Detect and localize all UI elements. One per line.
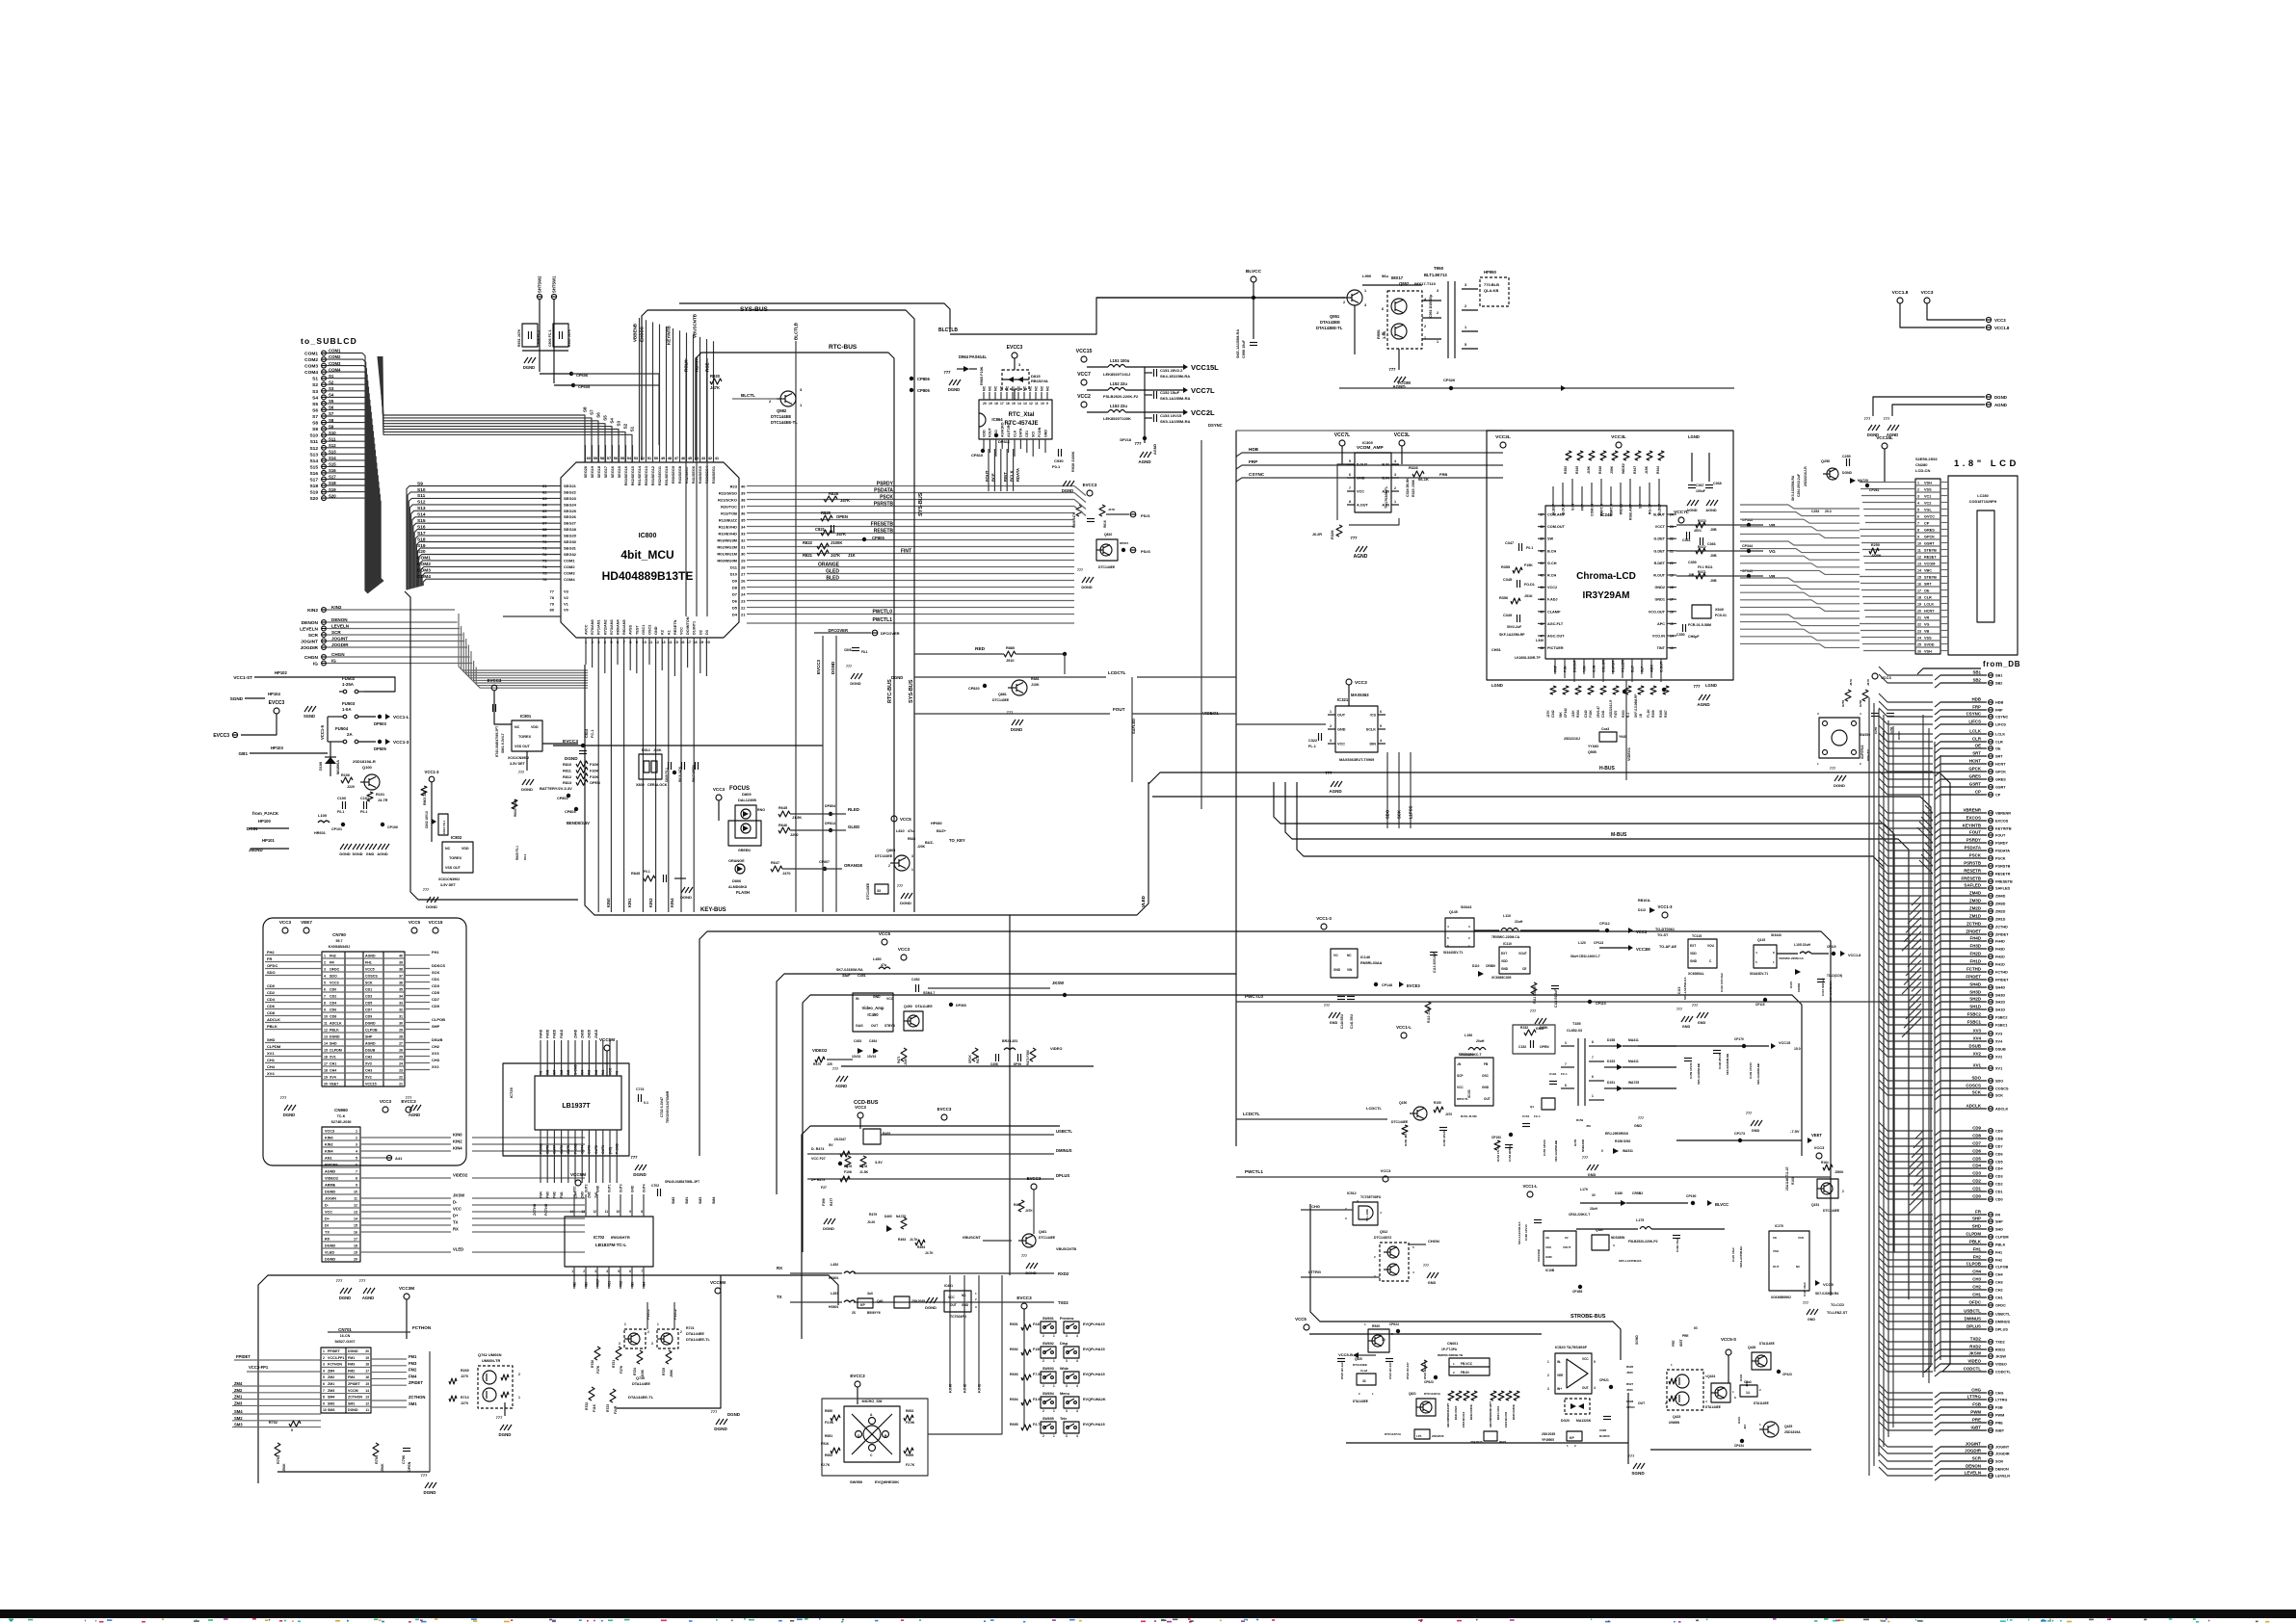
- svg-text:V3: V3: [564, 589, 569, 594]
- svg-text:63: 63: [542, 496, 547, 501]
- svg-text:GND: GND: [1428, 1281, 1437, 1285]
- power VCC7L VCC3L above VCOM_AMP: [1339, 440, 1345, 446]
- svg-text:C626: C626: [1599, 1428, 1607, 1432]
- svg-text:NC: NC: [1005, 385, 1009, 391]
- svg-text:IG: IG: [313, 662, 318, 668]
- svg-text:9: 9: [323, 1401, 325, 1405]
- svg-text:C706: C706: [402, 1455, 406, 1464]
- svg-text:ZM1D: ZM1D: [1995, 918, 2006, 922]
- svg-text:PSRSTB: PSRSTB: [1964, 861, 1981, 866]
- svg-text:FR: FR: [1975, 1210, 1982, 1215]
- svg-text:FM2: FM2: [553, 1191, 557, 1198]
- svg-text:C808: C808: [844, 648, 852, 652]
- svg-text:2SA1148-T11-1E: 2SA1148-T11-1E: [1785, 1167, 1789, 1191]
- svg-text:2: 2: [324, 960, 326, 964]
- svg-text:16-CN: 16-CN: [340, 1334, 351, 1338]
- buzzer driver bits: [875, 884, 888, 894]
- svg-text:R72/AN2: R72/AN2: [603, 619, 607, 635]
- svg-text:R03/WU3M: R03/WU3M: [717, 537, 737, 542]
- power EVCC3 node PS: [1087, 490, 1093, 496]
- svg-text:CHGN: CHGN: [1428, 1239, 1439, 1243]
- svg-text:PBLK: PBLK: [1995, 1243, 2006, 1247]
- IC246 bottom pins: [1554, 659, 1556, 674]
- svg-text:R725: R725: [662, 1368, 666, 1375]
- svg-text:BLCTLB: BLCTLB: [938, 327, 958, 333]
- svg-text:R845: R845: [631, 872, 640, 876]
- svg-text:34: 34: [741, 524, 746, 529]
- svg-text:LCDCTL: LCDCTL: [1243, 1112, 1260, 1116]
- power EVCC3 above matrix: [1021, 1303, 1027, 1309]
- svg-text:VCC5M: VCC5M: [570, 1172, 586, 1177]
- svg-text:DPLUS: DPLUS: [1966, 1324, 1981, 1329]
- svg-text:777: 777: [1389, 367, 1397, 372]
- svg-text:VCC15: VCC15: [429, 920, 443, 925]
- svg-text:HCNT: HCNT: [1924, 609, 1935, 613]
- svg-text:CD7: CD7: [1972, 1141, 1981, 1146]
- svg-text:7: 7: [641, 1270, 643, 1273]
- svg-text:47: 47: [1540, 635, 1544, 639]
- svg-text:SCR: SCR: [1995, 1460, 2003, 1464]
- power nodes VCC1.8 VCC3 top right: [1897, 298, 1903, 303]
- svg-text:R-1: R-1: [1626, 713, 1630, 718]
- svg-text:R160: R160: [1791, 1177, 1795, 1185]
- svg-text:S11: S11: [310, 439, 319, 445]
- svg-text:IN3: IN3: [588, 1070, 592, 1075]
- svg-text:VR: VR: [1924, 615, 1930, 619]
- svg-text:EVQPLHA15: EVQPLHA15: [1083, 1373, 1105, 1376]
- svg-text:IC800: IC800: [639, 533, 657, 539]
- transistor Q620 DTA143EE: [1368, 1329, 1389, 1352]
- svg-text:R81/AN5: R81/AN5: [622, 619, 626, 635]
- svg-text:L1FCS: L1FCS: [1409, 806, 1413, 819]
- svg-text:31: 31: [741, 544, 746, 549]
- svg-text:FM2: FM2: [348, 1369, 355, 1373]
- svg-text:5: 5: [618, 1270, 620, 1273]
- svg-text:CH6pF: CH6pF: [1688, 635, 1700, 639]
- svg-text:5: 5: [323, 1375, 325, 1379]
- svg-text:F3.9K: F3.9K: [906, 1421, 915, 1425]
- svg-text:IC802: IC802: [451, 835, 462, 840]
- svg-text:VCC3M: VCC3M: [1636, 947, 1650, 952]
- svg-text:65: 65: [542, 509, 547, 513]
- svg-text:AGND: AGND: [325, 1169, 335, 1173]
- svg-text:CH1: CH1: [1995, 1296, 2003, 1300]
- svg-text:SCK: SCK: [365, 981, 373, 984]
- svg-text:3: 3: [323, 1363, 325, 1367]
- svg-text:NC: NC: [999, 385, 1003, 391]
- svg-text:C452: C452: [911, 978, 920, 982]
- svg-text:RTC-BUS: RTC-BUS: [887, 679, 893, 703]
- svg-text:IC110: IC110: [1503, 942, 1512, 946]
- svg-text:TEKSV6GXJ47SM6R: TEKSV6GXJ47SM6R: [666, 1090, 670, 1123]
- svg-text:FU504: FU504: [335, 726, 349, 731]
- svg-text:16: 16: [354, 1230, 357, 1234]
- svg-text:SDO: SDO: [1995, 1080, 2003, 1084]
- svg-text:CHGN: CHGN: [331, 652, 345, 657]
- svg-text:CLPOB: CLPOB: [1966, 1262, 1981, 1267]
- svg-text:BEND0/3.5V: BEND0/3.5V: [567, 821, 590, 825]
- svg-text:HS601: HS601: [829, 1305, 838, 1309]
- svg-text:3.3V: 3.3V: [875, 1161, 883, 1165]
- svg-text:D2: D2: [699, 630, 702, 635]
- svg-text:SC: SC: [1638, 504, 1642, 509]
- svg-text:DSUB: DSUB: [365, 1048, 376, 1052]
- svg-text:FH1: FH1: [365, 960, 372, 964]
- svg-text:SM1: SM1: [348, 1401, 355, 1405]
- svg-text:R880: R880: [1006, 646, 1015, 650]
- svg-text:C159 10V33: C159 10V33: [1689, 1062, 1693, 1079]
- svg-text:S14: S14: [309, 458, 318, 464]
- transistor Q951 DTA143EE: [1347, 290, 1362, 305]
- svg-text:78: 78: [550, 595, 555, 600]
- svg-text:F.ADJ: F.ADJ: [1547, 598, 1558, 602]
- svg-text:OUT: OUT: [1638, 1401, 1646, 1405]
- svg-text:Q100: Q100: [362, 765, 373, 770]
- svg-text:STBYB: STBYB: [884, 1024, 896, 1028]
- svg-text:to_SUBLCD: to_SUBLCD: [301, 336, 357, 346]
- svg-text:RED: RED: [975, 646, 986, 652]
- svg-text:S5: S5: [603, 415, 608, 421]
- svg-text:FCR-01-5-58M: FCR-01-5-58M: [1688, 623, 1711, 627]
- svg-text:SEG25: SEG25: [564, 509, 577, 513]
- svg-text:Y8: Y8: [616, 1071, 620, 1075]
- svg-text:777: 777: [897, 884, 903, 888]
- svg-text:S3: S3: [312, 389, 318, 395]
- svg-text:S12: S12: [309, 446, 318, 452]
- svg-text:F2.7K: F2.7K: [906, 1463, 915, 1467]
- svg-text:27: 27: [741, 571, 746, 576]
- svg-text:R60/SEG13: R60/SEG13: [645, 466, 648, 485]
- svg-text:R10/EVHD: R10/EVHD: [718, 531, 737, 536]
- svg-text:DSYNC: DSYNC: [1208, 423, 1223, 428]
- svg-text:IC146: IC146: [1360, 955, 1370, 959]
- svg-text:J51K: J51K: [1524, 594, 1533, 598]
- svg-text:RESETN: RESETN: [673, 619, 677, 635]
- svg-text:SM3: SM3: [699, 1197, 702, 1204]
- svg-text:25: 25: [1917, 642, 1921, 646]
- svg-text:R80/AN4: R80/AN4: [617, 618, 620, 635]
- resistors R806 R816: [1076, 505, 1082, 516]
- svg-text:16: 16: [680, 640, 685, 644]
- svg-text:3-5V DET: 3-5V DET: [440, 883, 457, 887]
- svg-text:R269: R269: [461, 1369, 469, 1373]
- svg-text:11: 11: [1035, 402, 1039, 406]
- svg-text:DFCOVER: DFCOVER: [881, 631, 900, 636]
- svg-text:VSS: VSS: [1924, 636, 1932, 640]
- IC725 bottom pins: [540, 1130, 541, 1156]
- svg-text:VCC7L: VCC7L: [1334, 432, 1350, 438]
- svg-text:46: 46: [1540, 622, 1544, 626]
- svg-text:RX: RX: [777, 1266, 782, 1270]
- svg-text:CP807: CP807: [819, 860, 830, 864]
- svg-text:3: 3: [1066, 1409, 1068, 1413]
- svg-text:F3.9K: F3.9K: [825, 1421, 834, 1425]
- svg-text:OPEN: OPEN: [836, 514, 848, 519]
- svg-text:11: 11: [365, 1408, 369, 1412]
- svg-text:FO-D1: FO-D1: [1524, 583, 1535, 587]
- svg-text:CLPOB: CLPOB: [365, 1028, 378, 1032]
- svg-text:777: 777: [846, 665, 852, 668]
- svg-text:9: 9: [1917, 535, 1919, 538]
- svg-text:J1.5K: J1.5K: [859, 1170, 869, 1174]
- svg-text:29: 29: [399, 1028, 403, 1032]
- svg-text:F220 B0.056: F220 B0.056: [1504, 1411, 1508, 1427]
- svg-text:ZM2: ZM2: [588, 1191, 592, 1198]
- transistor Q401 2SK2035: [894, 1296, 910, 1308]
- svg-text:J1.5K: J1.5K: [792, 816, 802, 820]
- svg-text:XV2: XV2: [1973, 1052, 1982, 1057]
- svg-text:LC280: LC280: [1977, 494, 1988, 498]
- svg-text:J100: J100: [1745, 1380, 1749, 1387]
- svg-text:R22/SI/SO: R22/SI/SO: [719, 490, 737, 495]
- svg-text:GND: GND: [1501, 967, 1509, 971]
- svg-text:BLED: BLED: [826, 575, 839, 581]
- svg-text:R626: R626: [1626, 1365, 1634, 1369]
- svg-text:DTA144EE: DTA144EE: [686, 1332, 704, 1336]
- svg-text:CODCTL: CODCTL: [1964, 1367, 1982, 1372]
- svg-text:DGND: DGND: [891, 675, 903, 680]
- svg-text:SKE-1A155M-RA: SKE-1A155M-RA: [1236, 329, 1240, 358]
- svg-text:F0.1: F0.1: [1526, 546, 1533, 550]
- svg-text:CP343: CP343: [1742, 569, 1753, 573]
- svg-text:1: 1: [1053, 1409, 1055, 1413]
- svg-text:S13: S13: [309, 452, 318, 458]
- diode D100 MA806A: [325, 757, 336, 764]
- svg-text:F8-1: F8-1: [861, 650, 868, 654]
- svg-text:SCR: SCR: [308, 633, 319, 639]
- svg-text:D4: D4: [732, 612, 738, 616]
- svg-text:VIDEO2: VIDEO2: [812, 1048, 828, 1053]
- svg-text:26: 26: [399, 1048, 403, 1052]
- svg-text:EVCC3: EVCC3: [1027, 1176, 1042, 1181]
- svg-text:5.OUT: 5.OUT: [1357, 463, 1368, 467]
- svg-text:F240: F240: [1033, 1322, 1041, 1326]
- svg-text:DGND: DGND: [565, 756, 578, 761]
- svg-text:L340: L340: [1536, 639, 1544, 642]
- svg-text:2V: 2V: [1565, 1236, 1569, 1240]
- svg-text:CD5: CD5: [365, 1001, 372, 1005]
- svg-text:NC: NC: [993, 385, 997, 391]
- bundle verticals left of from_DB column: [1917, 668, 1981, 674]
- svg-text:JOGDIR: JOGDIR: [1965, 1449, 1982, 1453]
- svg-text:COM1: COM1: [304, 352, 318, 357]
- IC864 top pins: [983, 392, 985, 400]
- svg-text:FH3D: FH3D: [1970, 944, 1981, 949]
- nested bus corners left of video amp: [699, 931, 1831, 1296]
- svg-text:FCON: FCON: [1038, 427, 1042, 437]
- svg-text:IN2: IN2: [594, 1070, 598, 1075]
- svg-text:9: 9: [629, 1210, 631, 1214]
- svg-text:2: 2: [1842, 1190, 1844, 1193]
- svg-text:P-GND: P-GND: [573, 1143, 577, 1154]
- svg-text:D805: D805: [742, 792, 752, 797]
- svg-text:CP326: CP326: [1443, 378, 1456, 382]
- mos Q623: [1484, 1431, 1497, 1441]
- svg-text:F7.5K: F7.5K: [1033, 1373, 1042, 1376]
- svg-text:J56K: J56K: [282, 1463, 286, 1472]
- svg-text:R373: R373: [1698, 519, 1706, 523]
- svg-text:R625 F680K: R625 F680K: [1512, 1404, 1516, 1420]
- svg-text:DGND: DGND: [1081, 586, 1092, 589]
- diode DG20 MA1320K: [1565, 1399, 1590, 1414]
- ground AGND under VCOM_AMP: [1356, 546, 1359, 552]
- svg-text:CD8: CD8: [1972, 1134, 1981, 1139]
- svg-text:DGND: DGND: [831, 661, 835, 674]
- svg-text:CH1: CH1: [330, 1061, 336, 1065]
- svg-text:SK5-LA155M-RA: SK5-LA155M-RA: [1739, 1246, 1743, 1268]
- svg-text:SHP: SHP: [1972, 1217, 1981, 1221]
- svg-text:LEVELN: LEVELN: [331, 624, 350, 629]
- svg-text:TINT: TINT: [1657, 646, 1666, 650]
- svg-text:R650: R650: [825, 1409, 832, 1413]
- svg-text:LEVELN: LEVELN: [1995, 1475, 2010, 1479]
- svg-text:CH2: CH2: [1995, 1289, 2003, 1293]
- transistor Q425 2SD1819A: [1763, 1422, 1779, 1437]
- svg-text:F24R: F24R: [614, 1405, 618, 1414]
- svg-text:CD7: CD7: [432, 997, 440, 1002]
- svg-text:CD7: CD7: [1995, 1145, 2003, 1149]
- svg-text:R159: R159: [1576, 1118, 1584, 1122]
- svg-text:D- R474: D- R474: [811, 1147, 824, 1151]
- svg-text:VCC5: VCC5: [409, 920, 421, 925]
- svg-text:/CS: /CS: [1370, 714, 1377, 718]
- svg-text:13: 13: [1023, 402, 1027, 406]
- svg-text:NDS355N: NDS355N: [1611, 1236, 1625, 1240]
- svg-text:A1/T1RO: A1/T1RO: [1007, 423, 1011, 437]
- svg-text:3: 3: [1066, 1359, 1068, 1363]
- svg-text:22uH: 22uH: [1515, 920, 1523, 924]
- svg-text:CP806: CP806: [917, 377, 930, 381]
- svg-text:7: 7: [356, 1169, 357, 1173]
- svg-text:S12: S12: [417, 500, 426, 506]
- MCU IC800 HD404889B13TE body: [561, 462, 739, 638]
- svg-text:777: 777: [1077, 568, 1083, 572]
- svg-text:FCTHD: FCTHD: [1966, 967, 1981, 972]
- svg-text:75: 75: [542, 570, 547, 575]
- svg-text:VCC2: VCC2: [1547, 586, 1557, 589]
- svg-text:CD3: CD3: [1972, 1171, 1981, 1176]
- svg-text:770.BLB: 770.BLB: [1484, 282, 1499, 287]
- svg-text:IN1: IN1: [601, 1070, 605, 1075]
- svg-text:10V33: 10V33: [867, 1055, 876, 1059]
- EVCC3 node USB: [941, 1114, 947, 1120]
- svg-text:S7: S7: [312, 414, 318, 420]
- svg-text:OUT5: OUT5: [567, 1145, 570, 1154]
- svg-text:22: 22: [741, 605, 746, 610]
- svg-text:DPLUS: DPLUS: [1056, 1173, 1069, 1178]
- buzzer circuit right of FOCUS: [891, 816, 897, 822]
- svg-text:RXD2: RXD2: [1058, 1271, 1069, 1276]
- svg-text:C359: C359: [1688, 561, 1697, 564]
- svg-text:SEG17: SEG17: [604, 466, 608, 478]
- svg-text:PSRSTB: PSRSTB: [874, 501, 894, 507]
- svg-text:PSDATA: PSDATA: [1995, 850, 2010, 853]
- svg-text:COSCS: COSCS: [365, 974, 378, 978]
- svg-text:PRE: PRE: [1972, 1418, 1981, 1423]
- svg-text:D-: D-: [453, 1200, 458, 1205]
- svg-text:2: 2: [680, 1330, 682, 1334]
- svg-text:PWCTL0: PWCTL0: [872, 609, 892, 615]
- svg-text:Q115: Q115: [1757, 938, 1765, 942]
- svg-text:DDSCS: DDSCS: [432, 963, 445, 968]
- svg-text:GND2: GND2: [1654, 586, 1665, 589]
- svg-text:R155: R155: [1573, 1139, 1577, 1146]
- svg-text:VCC5: VCC5: [365, 967, 375, 971]
- svg-text:GSRT: GSRT: [1969, 782, 1982, 787]
- svg-text:VBRENR: VBRENR: [1995, 812, 2011, 816]
- video amp output rail: [841, 1065, 1094, 1067]
- svg-text:Disp: Disp: [1060, 1342, 1069, 1346]
- svg-text:DGND: DGND: [424, 1490, 436, 1495]
- svg-text:F396: F396: [822, 1198, 826, 1206]
- svg-text:777: 777: [1530, 1009, 1536, 1013]
- svg-text:C120 15uF: C120 15uF: [1731, 1247, 1735, 1262]
- svg-text:777: 777: [496, 1415, 503, 1420]
- svg-text:WA725: WA725: [1628, 1081, 1639, 1085]
- svg-text:FRP: FRP: [1972, 705, 1981, 710]
- svg-text:18: 18: [1917, 595, 1921, 599]
- svg-text:PSRDY: PSRDY: [1966, 838, 1981, 843]
- svg-text:SDO: SDO: [330, 974, 337, 978]
- caps right of resonator: [668, 762, 670, 770]
- svg-text:KIN4: KIN4: [325, 1149, 334, 1153]
- svg-text:C366: C366: [1707, 542, 1716, 546]
- svg-text:DGND: DGND: [680, 895, 692, 900]
- svg-text:FC-1: FC-1: [1561, 1072, 1568, 1076]
- svg-text:IN-: IN-: [1557, 1360, 1561, 1364]
- svg-text:777: 777: [280, 1095, 287, 1100]
- svg-text:FRP: FRP: [1553, 665, 1557, 672]
- svg-text:OFDC: OFDC: [1995, 1304, 2006, 1308]
- svg-text:ZM4D: ZM4D: [1969, 891, 1981, 896]
- svg-text:CP345: CP345: [1742, 518, 1753, 522]
- svg-text:FM3D: FM3D: [546, 1029, 550, 1038]
- svg-text:SK5-1A155M-RA: SK5-1A155M-RA: [1160, 396, 1190, 401]
- power nodes above CN9: [383, 1107, 388, 1113]
- svg-text:PSCK: PSCK: [880, 494, 893, 500]
- svg-text:SM4: SM4: [234, 1409, 243, 1414]
- svg-text:5: 5: [1349, 459, 1351, 463]
- svg-text:R479: R479: [869, 1213, 877, 1217]
- svg-text:1.8" LCD: 1.8" LCD: [1954, 458, 2019, 469]
- svg-text:13: 13: [1917, 562, 1921, 565]
- svg-text:SCR: SCR: [1972, 1456, 1982, 1461]
- svg-text:C812 F8.1: C812 F8.1: [442, 821, 446, 834]
- svg-text:SSRT.R: SSRT.R: [1609, 504, 1613, 516]
- svg-text:S1: S1: [312, 377, 318, 382]
- svg-text:D3: D3: [705, 630, 709, 635]
- svg-text:KIN0: KIN0: [453, 1133, 462, 1138]
- svg-text:C347: C347: [1505, 541, 1514, 545]
- svg-text:C153 10V15: C153 10V15: [1160, 413, 1182, 418]
- svg-text:2: 2: [1437, 311, 1438, 315]
- svg-text:1: 1: [1394, 500, 1396, 504]
- svg-text:47: 47: [674, 456, 679, 460]
- svg-text:Q805: Q805: [886, 849, 895, 852]
- svg-text:C368: C368: [1713, 482, 1722, 485]
- svg-text:SW: SW: [1547, 537, 1554, 541]
- svg-text:VCC3: VCC3: [1994, 318, 2006, 323]
- svg-text:RDATA: RDATA: [695, 356, 699, 372]
- svg-text:J47K: J47K: [710, 385, 720, 390]
- svg-text:TXD2: TXD2: [1995, 1341, 2005, 1345]
- svg-text:1: 1: [1053, 1359, 1055, 1363]
- svg-text:SK7-0J330M-RA: SK7-0J330M-RA: [836, 968, 863, 972]
- svg-text:VBUSCNTB: VBUSCNTB: [1056, 1247, 1076, 1251]
- svg-text:R323 J39K: R323 J39K: [1412, 479, 1415, 497]
- svg-text:47u: 47u: [881, 963, 886, 967]
- svg-text:R494: R494: [917, 1245, 925, 1249]
